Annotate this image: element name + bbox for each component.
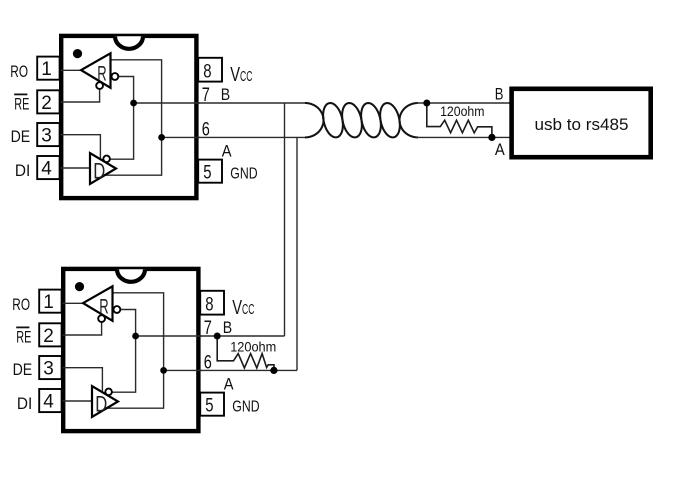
junction on U2 A net at R2 (270, 367, 277, 374)
wire U2 pin6 A line inside body (164, 369, 202, 371)
usb to rs485 adapter box (512, 89, 651, 157)
wire U1 pin6 A line inside body (162, 136, 200, 138)
transceiver U2 (MAX485) (12, 269, 259, 431)
wire U2 pin1 to receiver output (62, 302, 84, 304)
twisted pair cable wire 2 (305, 103, 418, 137)
pin label VCC (U2) (232, 297, 254, 319)
wire A from U1 pin6 to twisted pair (196, 136, 307, 138)
receiver enable bubble (U2) (98, 315, 105, 322)
svg-text:RE: RE (16, 328, 31, 347)
receiver R (U2) (83, 286, 112, 321)
wire U2 A net: receiver input / driver output (107, 293, 164, 408)
wire U2 pin4 DI to driver input (62, 400, 93, 402)
wire branch A down to U2 (296, 137, 298, 370)
junction U2 B net (132, 333, 139, 340)
pin 5 box (U1) (198, 160, 222, 184)
wire U1 B net: receiver inverting input / driver bubble output (110, 77, 134, 160)
svg-text:GND: GND (230, 166, 257, 183)
wire U1 pin1 to receiver output (60, 69, 82, 71)
svg-text:RO: RO (10, 62, 28, 81)
resistor R2 120ohm (at U2) (217, 336, 274, 370)
U1 package body (61, 36, 196, 198)
svg-text:1: 1 (41, 59, 52, 80)
wire A to usb adapter (bottom right) (416, 136, 511, 138)
pin 8 box (U1) (198, 58, 222, 83)
wire U2 pin7 B line inside body (136, 335, 202, 337)
twisted pair cable wire 1 (305, 103, 418, 137)
wire B from U1 pin7 to twisted pair (196, 102, 307, 104)
wire U1 pin4 DI to driver input (60, 167, 91, 169)
svg-text:8: 8 (203, 62, 211, 83)
pin 2 box (U1) (37, 90, 59, 114)
svg-text:DE: DE (13, 360, 33, 379)
driver bubble (U1) (103, 156, 110, 163)
wire B to usb adapter (top right) (416, 102, 511, 104)
svg-text:A: A (495, 140, 505, 159)
driver bubble (U2) (105, 389, 112, 396)
U2 orientation notch (116, 269, 147, 282)
junction U1 A net (158, 134, 165, 141)
wire U1 pin2 RE to receiver enable bubble (60, 89, 100, 102)
svg-text:RO: RO (12, 295, 30, 314)
svg-text:120ohm: 120ohm (230, 339, 276, 354)
receiver enable bubble (U1) (96, 82, 103, 89)
pin 3 box (U1) (37, 123, 59, 147)
svg-text:B: B (495, 84, 504, 103)
svg-text:1: 1 (43, 292, 54, 313)
svg-text:A: A (224, 374, 234, 393)
junction on wire B at R1 (423, 100, 430, 107)
pin 4 box (U1) (37, 156, 59, 180)
svg-text:CC: CC (240, 68, 252, 85)
junction U2 A net (160, 367, 167, 374)
svg-text:D: D (93, 159, 105, 184)
pin 3 box (U2) (39, 356, 61, 380)
svg-text:120ohm: 120ohm (440, 104, 484, 119)
U2 pin-1 marker dot (75, 282, 84, 291)
svg-text:CC: CC (242, 301, 254, 318)
U1 pin-1 marker dot (73, 49, 82, 58)
svg-text:A: A (222, 141, 232, 160)
wire U2 pin6 A to branch (198, 369, 297, 371)
driver D (U1) (90, 153, 116, 184)
svg-text:D: D (95, 392, 107, 417)
wire U2 pin2 RE to receiver enable bubble (62, 322, 102, 335)
svg-text:usb to rs485: usb to rs485 (535, 115, 629, 134)
pin 8 box (U2) (200, 291, 224, 316)
receiver R (U1) (81, 53, 110, 88)
svg-text:5: 5 (205, 396, 213, 417)
junction U1 B net (130, 100, 137, 107)
wire U1 pin7 B line inside body (134, 102, 200, 104)
pin 4 box (U2) (39, 389, 61, 413)
wire U1 A net: receiver input / driver output (105, 60, 162, 175)
svg-text:GND: GND (232, 399, 259, 416)
pin 5 box (U2) (200, 393, 224, 417)
junction on U2 B net at R2 (214, 333, 221, 340)
svg-text:3: 3 (41, 126, 52, 147)
pin label VCC (U1) (230, 64, 252, 86)
wire U2 pin7 B to branch (198, 335, 285, 337)
receiver B-input bubble (U2) (114, 306, 121, 313)
svg-text:8: 8 (205, 295, 213, 316)
pin label RE-bar (U2) (16, 327, 31, 346)
svg-text:DI: DI (15, 161, 30, 180)
driver D (U2) (92, 386, 118, 417)
svg-text:RE: RE (14, 95, 29, 114)
U1 orientation notch (114, 36, 145, 49)
wire U2 B net: receiver inverting input / driver bubble output (112, 310, 136, 393)
svg-text:2: 2 (41, 93, 52, 114)
wire branch B down to U2 (284, 103, 286, 336)
svg-text:3: 3 (43, 359, 54, 380)
receiver B-input bubble (U1) (112, 73, 119, 80)
svg-text:4: 4 (41, 159, 52, 180)
transceiver U1 (MAX485) (10, 36, 257, 198)
pin label RE-bar (U1) (14, 94, 29, 113)
U2 package body (63, 269, 198, 431)
pin 2 box (U2) (39, 323, 61, 347)
resistor R1 120ohm (at usb adapter) (427, 103, 492, 137)
pin 1 box (U2) (39, 290, 61, 314)
svg-text:2: 2 (43, 326, 54, 347)
svg-text:DE: DE (11, 127, 31, 146)
wire U2 pin3 DE to driver enable (62, 368, 103, 392)
wire U1 pin3 DE to driver enable (60, 135, 101, 159)
junction on wire A at R1 (488, 134, 495, 141)
svg-text:5: 5 (203, 163, 211, 184)
pin 1 box (U1) (37, 57, 59, 81)
svg-text:B: B (221, 85, 230, 104)
svg-text:B: B (223, 318, 232, 337)
svg-text:4: 4 (43, 392, 54, 413)
svg-text:DI: DI (17, 394, 32, 413)
